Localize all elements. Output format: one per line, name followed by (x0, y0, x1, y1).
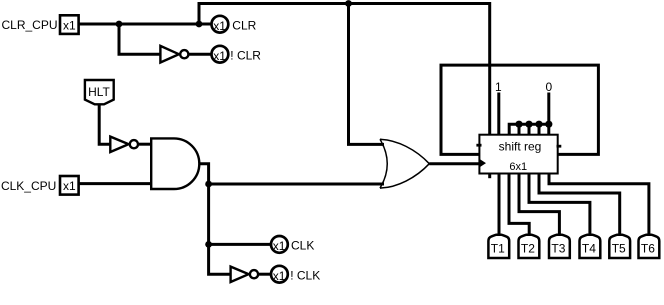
wire top branch down to OR gate input (349, 4, 385, 145)
constant 0 (545, 80, 552, 124)
wire bus stub pin5 (528, 124, 531, 134)
constant 1 (495, 80, 502, 134)
svg-text:T1: T1 (491, 241, 505, 255)
svg-text:6x1: 6x1 (509, 161, 527, 173)
wire shift reg out3 to T3 (519, 174, 559, 234)
svg-text:CLR: CLR (232, 18, 256, 32)
wire shift reg out1 to T1 (498, 174, 501, 234)
node junction CLR branch (116, 21, 123, 28)
wire to !CLR inverter (119, 24, 160, 54)
svg-text:1: 1 (495, 80, 502, 94)
svg-text:x1: x1 (63, 18, 76, 32)
output x1 CLR (212, 16, 257, 33)
node junction to OR input (205, 181, 212, 188)
node junction top wire to OR (345, 0, 352, 7)
svg-text:! CLK: ! CLK (290, 268, 320, 282)
wire bus stub pin7 (547, 124, 550, 134)
inverter (CLR path) (160, 46, 188, 63)
input pin CLR_CPU (1, 15, 78, 34)
pin stub bottom (unconnected) (488, 174, 491, 178)
output x1 !CLR (212, 46, 262, 63)
output tag T2 (519, 235, 540, 258)
input pin CLK_CPU (1, 176, 79, 195)
wire bus stub pin4 (518, 124, 521, 134)
wire inverter to !CLK output (258, 273, 271, 276)
svg-text:CLK_CPU: CLK_CPU (1, 179, 56, 193)
wire CLK_CPU to AND input (79, 182, 151, 185)
svg-text:x1: x1 (273, 269, 286, 283)
svg-text:T5: T5 (612, 241, 626, 255)
inverter (CLK path) (231, 267, 259, 282)
svg-text:x1: x1 (213, 49, 226, 63)
wire CLR_CPU output (79, 23, 211, 26)
svg-text:CLK: CLK (291, 239, 314, 253)
wire inverter to !CLR output (188, 53, 210, 56)
svg-text:T3: T3 (551, 241, 565, 255)
output tag T1 (488, 235, 509, 258)
wire shift reg out6 to T6 (549, 174, 649, 234)
wire feedback loop Q to serial-in (441, 65, 598, 154)
wire AND output down trunk (199, 164, 230, 275)
pin stub right (unconnected) (557, 145, 562, 148)
node junction CLR top branch (196, 21, 203, 28)
svg-text:T4: T4 (582, 241, 596, 255)
AND gate (151, 138, 199, 189)
svg-text:T2: T2 (521, 241, 535, 255)
output tag T6 (639, 235, 660, 258)
wire bus stub pin6 (538, 124, 541, 134)
svg-text:HLT: HLT (88, 85, 110, 99)
shift reg 6x1 box (479, 135, 557, 174)
svg-text:x1: x1 (273, 239, 286, 253)
wire constant-0 bus (509, 124, 549, 134)
wire inverter to AND input (138, 143, 151, 146)
node junction to CLK output (205, 241, 212, 248)
svg-text:! CLR: ! CLR (230, 48, 261, 62)
svg-text:0: 0 (545, 80, 552, 94)
inverter (HLT path) (110, 137, 138, 152)
svg-text:x1: x1 (213, 19, 226, 33)
svg-text:T6: T6 (641, 241, 655, 255)
node bus junction 2 (525, 121, 532, 128)
input tag HLT (85, 80, 114, 104)
OR gate (380, 139, 429, 188)
svg-text:shift reg: shift reg (499, 140, 542, 154)
pin stub left (unconnected) (476, 144, 481, 147)
wire shift reg out5 to T5 (539, 174, 620, 234)
node bus junction 4 (545, 121, 552, 128)
svg-text:CLR_CPU: CLR_CPU (1, 18, 57, 32)
wire shift reg out2 to T2 (509, 174, 529, 234)
wire to CLK output (209, 243, 271, 246)
wire OR output to shift reg clock (429, 162, 479, 165)
output x1 !CLK (271, 266, 320, 283)
output tag T3 (549, 235, 570, 258)
svg-text:x1: x1 (63, 179, 76, 193)
wire shift reg out4 to T4 (529, 174, 590, 234)
output tag T4 (580, 235, 601, 258)
node bus junction 3 (535, 121, 542, 128)
clock chevron pin (480, 159, 486, 167)
wire HLT to inverter (99, 104, 110, 144)
wire to OR gate lower input (209, 183, 384, 186)
output tag T5 (609, 235, 630, 258)
output x1 CLK (271, 236, 314, 253)
node bus junction 1 (515, 121, 522, 128)
wire CLR net top run to shift reg top pin (199, 4, 490, 135)
